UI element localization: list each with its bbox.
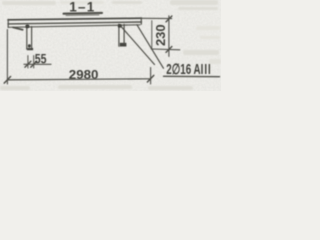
dim 230 dimension line bbox=[168, 16, 170, 57]
svg-text:1–1: 1–1 bbox=[69, 0, 95, 14]
left end bottom taper bbox=[13, 27, 23, 29]
dim 2980 extension line right bbox=[150, 68, 152, 85]
dim 2980 dimension line bbox=[7, 79, 150, 80]
rebar note underline bbox=[164, 75, 220, 77]
slab bottom flange line bbox=[8, 25, 140, 28]
leader line to rebar note bbox=[121, 27, 154, 65]
rebar dot left bbox=[25, 24, 29, 28]
paper background bbox=[0, 0, 221, 91]
section title underline thin bbox=[66, 14, 99, 17]
dim 55 extension line right bbox=[33, 56, 35, 68]
dim 230 top extension line bbox=[142, 17, 172, 19]
left rib left line bbox=[26, 27, 28, 49]
dim 55 extension line left bbox=[27, 56, 29, 68]
slab left end cap bbox=[7, 19, 9, 27]
left rib right line bbox=[31, 27, 33, 50]
rebar dot right bbox=[118, 24, 122, 28]
faint bleed-through smudges top bbox=[0, 0, 221, 90]
section title underline thick bbox=[64, 12, 103, 15]
support wall right edge bbox=[151, 21, 153, 50]
right rib right line bbox=[123, 24, 125, 43]
hatch diagonal bbox=[137, 25, 164, 69]
dim 230 tick bottom bbox=[166, 47, 172, 53]
svg-text:2980: 2980 bbox=[69, 67, 99, 82]
left rib foot dot bbox=[28, 44, 31, 47]
dim 230 bottom extension line bbox=[151, 48, 180, 51]
dim 55 dimension line bbox=[24, 63, 51, 65]
svg-text:55: 55 bbox=[35, 51, 47, 67]
slab bottom chord line bbox=[8, 22, 142, 24]
paper grain noise bbox=[0, 0, 221, 91]
dim 2980 tick left bbox=[4, 77, 10, 84]
dim 55 tick right bbox=[31, 61, 37, 67]
slab right end cap bbox=[140, 18, 142, 25]
dim 2980 extension line left bbox=[6, 30, 8, 85]
left rib foot bar bbox=[27, 48, 33, 50]
right rib foot bbox=[120, 43, 127, 47]
dim 230 tick top bbox=[166, 16, 172, 22]
dim 2980 tick right bbox=[147, 75, 153, 82]
svg-text:2∅16 AIII: 2∅16 AIII bbox=[166, 61, 212, 77]
dim 55 tick left bbox=[25, 61, 31, 67]
slab top chord line bbox=[8, 18, 142, 20]
svg-text:230: 230 bbox=[153, 24, 168, 46]
right rib left line bbox=[118, 24, 120, 46]
